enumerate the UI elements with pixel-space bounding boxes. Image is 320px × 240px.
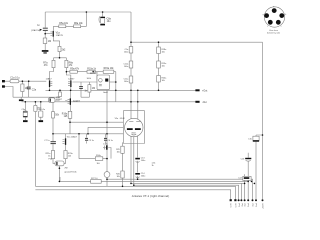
svg-text:Gnd: Gnd [248,203,250,207]
svg-text:100u: 100u [124,81,128,83]
svg-text:R15a 10k: R15a 10k [104,68,115,70]
svg-text:10k: 10k [117,176,120,178]
svg-text:R5a 10k: R5a 10k [59,23,68,25]
svg-text:k: k [285,14,286,16]
svg-text:R8a: R8a [69,63,74,65]
svg-text:-Out: -Out [202,101,207,104]
svg-text:Gnd: Gnd [256,203,258,207]
svg-text:ground R 10k: ground R 10k [65,172,77,174]
svg-text:+300V: +300V [263,203,265,210]
svg-text:R10a 1k: R10a 1k [87,69,96,71]
svg-text:1k: 1k [152,165,154,167]
svg-text:10k: 10k [162,52,165,54]
svg-text:C2a: C2a [32,89,37,91]
svg-text:1M: 1M [48,41,51,43]
svg-text:1M: 1M [25,88,28,90]
svg-text:bottom by side: bottom by side [267,31,281,34]
svg-text:1M: 1M [92,88,95,90]
svg-text:10k: 10k [162,80,165,82]
svg-text:R7a: R7a [43,63,48,65]
svg-text:g: g [263,14,264,16]
svg-text:B1a 9V: B1a 9V [90,73,97,75]
svg-text:100u: 100u [124,66,128,68]
svg-text:C8a: C8a [107,18,112,20]
svg-text:R6a 10k: R6a 10k [74,23,83,25]
svg-text:1k: 1k [48,155,50,157]
svg-text:100u: 100u [141,175,145,177]
svg-text:12AX7: 12AX7 [73,100,81,103]
svg-text:Out: Out [244,203,247,207]
svg-text:(12AX7-A): (12AX7-A) [31,29,41,32]
svg-text:100u: 100u [141,160,145,162]
svg-text:Out: Out [241,203,244,207]
svg-text:C7 1u: C7 1u [44,140,49,142]
svg-text:Out: Out [252,203,255,207]
svg-text:R27 10: R27 10 [91,178,98,180]
svg-text:2W: 2W [65,168,68,170]
svg-text:12AX7: 12AX7 [46,77,53,80]
svg-text:10k: 10k [162,66,165,68]
svg-text:V2a 12AU7: V2a 12AU7 [67,136,78,139]
svg-text:C6 1n: C6 1n [108,140,113,142]
svg-text:6922: 6922 [132,132,136,134]
svg-text:12AT7B: 12AT7B [56,34,64,37]
svg-text:+Out: +Out [202,89,208,92]
svg-text:10k: 10k [117,151,120,153]
svg-text:12AX7: 12AX7 [68,77,75,80]
svg-text:100u: 100u [124,51,128,53]
svg-text:6.3V: 6.3V [235,203,237,208]
svg-text:C1a 0.1u: C1a 0.1u [10,78,20,80]
svg-text:Gnd: Gnd [239,203,241,207]
svg-text:R9a 47k: R9a 47k [70,69,79,71]
svg-text:C5 1n: C5 1n [89,140,94,142]
svg-text:12AX7: 12AX7 [56,98,63,101]
svg-text:100k: 100k [87,78,91,80]
svg-text:C4a 0.1u: C4a 0.1u [37,109,45,111]
svg-text:Antares VT-1 (right channel): Antares VT-1 (right channel) [132,194,170,198]
svg-text:6.3V: 6.3V [231,203,233,208]
